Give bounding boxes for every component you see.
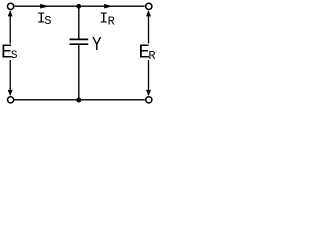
wire ES shaft upper (9, 11, 11, 44)
svg-text:R: R (148, 49, 155, 63)
voltage arrow ER upper head (146, 10, 151, 16)
node bottom junction (76, 98, 81, 103)
capacitor Y top plate (70, 38, 89, 40)
capacitor Y bottom plate (70, 43, 89, 45)
terminal circle TR (146, 3, 152, 9)
svg-text:S: S (11, 50, 18, 62)
label IS (37, 11, 52, 28)
svg-text:R: R (108, 14, 115, 28)
label IR (99, 11, 115, 29)
svg-text:S: S (44, 14, 51, 28)
voltage arrow ER lower head (146, 90, 151, 96)
current arrow IR (104, 4, 112, 9)
terminal circle TL (8, 3, 14, 9)
terminal circle BL (8, 97, 14, 103)
terminal circle BR (146, 97, 152, 103)
wire shunt top (78, 6, 80, 38)
wire ES shaft lower (9, 60, 11, 95)
voltage arrow ES upper head (8, 10, 13, 16)
label ES (1, 42, 18, 64)
node top junction (76, 4, 81, 9)
voltage arrow ES lower head (8, 90, 13, 96)
wire shunt bottom (78, 45, 80, 100)
wire top (14, 5, 144, 7)
current arrow IS (40, 4, 49, 9)
svg-text:Y: Y (92, 34, 102, 56)
wire bottom (14, 99, 144, 101)
wire ER shaft lower (148, 60, 150, 95)
wire ER shaft upper (148, 11, 150, 43)
label ER (139, 41, 156, 63)
